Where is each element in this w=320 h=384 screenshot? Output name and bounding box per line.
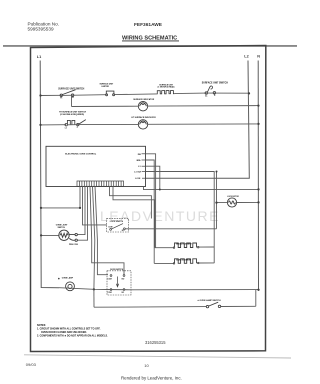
wire lock branch (216, 172, 218, 229)
wire bundle 2 lock feed (83, 186, 107, 225)
svg-text:PBS COM: PBS COM (69, 244, 78, 246)
door switch internals (110, 275, 125, 291)
schematic border (31, 46, 266, 352)
switch surface unit switch S2 (205, 86, 216, 94)
node junction N row1b (257, 104, 259, 106)
wire lamp drop (93, 289, 95, 307)
wire row2 right (68, 123, 259, 126)
wire row1 seg4 (175, 92, 206, 95)
lamp surface indicator I1 (138, 102, 147, 111)
thermal limiter TL1 (106, 91, 115, 96)
wire indicator line (72, 105, 259, 108)
svg-text:09/03: 09/03 (26, 362, 37, 367)
svg-text:BRL: BRL (137, 160, 142, 162)
svg-text:COM: COM (108, 226, 113, 228)
svg-text:FEF361AWE: FEF361AWE (134, 22, 163, 28)
lamp oven lamp DS1 (59, 288, 107, 290)
wire bundle 1 (79, 186, 81, 208)
svg-text:HT SURFACE UNIT SWITCH: HT SURFACE UNIT SWITCH (59, 110, 87, 113)
svg-text:HT SURFACE INDICATOR: HT SURFACE INDICATOR (131, 116, 156, 119)
wire L1 bus (40, 61, 59, 288)
svg-text:BAKE ELEMENT: BAKE ELEMENT (176, 258, 192, 261)
electronic oven control U1 (46, 146, 146, 186)
svg-text:SURFACE UNIT SWITCH: SURFACE UNIT SWITCH (202, 81, 228, 84)
wire EOC neutral (144, 187, 259, 190)
svg-text:COM: COM (107, 292, 112, 294)
svg-text:LOCK SWITCH: LOCK SWITCH (110, 221, 124, 223)
wire bottom right link (255, 290, 257, 307)
wire lock switch out (125, 228, 216, 230)
wire row1 right (206, 92, 250, 94)
svg-text:L1 OUT: L1 OUT (134, 172, 142, 174)
wire L2 bus (146, 61, 250, 179)
wire bundle 6 lamp feed (93, 186, 95, 289)
svg-text:SURFACE UNIT SWITCH: SURFACE UNIT SWITCH (58, 87, 84, 90)
wire row2 left (41, 124, 67, 126)
node junction L1 row1 (39, 94, 41, 96)
switch row2 S3 (65, 120, 86, 126)
motor lock motor M1 (217, 201, 259, 203)
node junction L1 row2 (39, 124, 41, 126)
svg-text:(1 SHOWN 4 REQD): (1 SHOWN 4 REQD) (158, 86, 175, 89)
svg-text:Rendered by LeadVenture, Inc.: Rendered by LeadVenture, Inc. (121, 375, 182, 380)
wire door nc out (107, 289, 259, 291)
page edge artifact line (24, 355, 291, 358)
wire bundle 5 door no (90, 186, 124, 274)
node junction N row2 (257, 123, 259, 125)
switch lock blade (110, 224, 126, 231)
node junction lamp line (93, 288, 95, 290)
resistor surface element row1 (156, 91, 174, 94)
svg-text:(2 SHOWN 4 REQUIRED): (2 SHOWN 4 REQUIRED) (60, 113, 84, 116)
svg-text:SURFACE INDICATOR: SURFACE INDICATOR (133, 98, 155, 101)
node junction L2 row1 (248, 92, 250, 94)
wire bundle 7 door com (95, 186, 108, 274)
connector strip J1 (77, 181, 124, 186)
wire bottom lamp switch line (94, 305, 256, 308)
lock switch box (107, 219, 129, 232)
svg-text:ELECTRONIC OVEN CONTROL: ELECTRONIC OVEN CONTROL (65, 154, 97, 156)
resistor broil element (155, 246, 215, 249)
door switch box (107, 271, 131, 295)
svg-text:DB: DB (138, 154, 142, 156)
node junction N eoc (257, 188, 259, 190)
wire row1 seg2 (61, 94, 106, 97)
svg-text:SWITCH: SWITCH (58, 227, 66, 229)
wire pin BRL to bake left (146, 160, 155, 263)
svg-text:P1: P1 (60, 98, 62, 100)
node junction N door (257, 289, 259, 291)
svg-text:316255315: 316255315 (145, 340, 166, 345)
svg-text:BROIL ELEMENT: BROIL ELEMENT (176, 244, 192, 246)
svg-text:∗ OVEN LAMP SWITCH: ∗ OVEN LAMP SWITCH (197, 299, 221, 302)
wire row1 seg3 (115, 93, 156, 96)
wire connector stair 1 (110, 186, 152, 218)
lamp ht surface indicator I2 (138, 120, 147, 129)
svg-text:10: 10 (144, 363, 149, 368)
svg-text:L1: L1 (37, 55, 41, 59)
svg-text:Publication No.: Publication No. (28, 21, 60, 26)
svg-text:5995395539: 5995395539 (28, 27, 54, 32)
node junction L1 tap (40, 207, 42, 209)
wire pilot drop (71, 96, 73, 107)
svg-text:LIMITER: LIMITER (102, 86, 110, 88)
wire pin L1 OUT to elements right (146, 172, 215, 264)
svg-text:N: N (257, 55, 260, 59)
resistor bake element (154, 262, 214, 265)
svg-text:LOCK MOTOR: LOCK MOTOR (227, 196, 239, 198)
wire row1 left (41, 94, 62, 96)
svg-text:OVEN LAMP: OVEN LAMP (62, 277, 74, 280)
switch oven lamp switch S4 (206, 302, 220, 308)
wire connector stair 2 (113, 186, 155, 247)
resistor element row2 (67, 120, 74, 124)
wire bundle 3 pbs top (77, 186, 85, 234)
wire L1 tap (41, 207, 80, 209)
node junction N lock motor (257, 201, 259, 203)
svg-text:L2 IN: L2 IN (135, 178, 141, 180)
svg-text:L2: L2 (244, 55, 248, 59)
svg-text:2. COMPONENTS WITH ∗ DO NOT AP: 2. COMPONENTS WITH ∗ DO NOT APPEAR ON AL… (37, 334, 108, 337)
wire pin L1 down (146, 166, 160, 189)
header rule (3, 45, 297, 47)
lamp oven light PBS (41, 234, 59, 236)
switch surface unit switch S1 (60, 90, 76, 97)
svg-text:L1: L1 (65, 127, 67, 129)
svg-text:COM: COM (107, 278, 112, 280)
wire bundle 4 pbs bottom (77, 186, 87, 240)
wire pin DB to broil left (146, 154, 156, 248)
svg-text:DOOR SWITCH: DOOR SWITCH (110, 269, 124, 271)
wire N bus (257, 61, 259, 290)
